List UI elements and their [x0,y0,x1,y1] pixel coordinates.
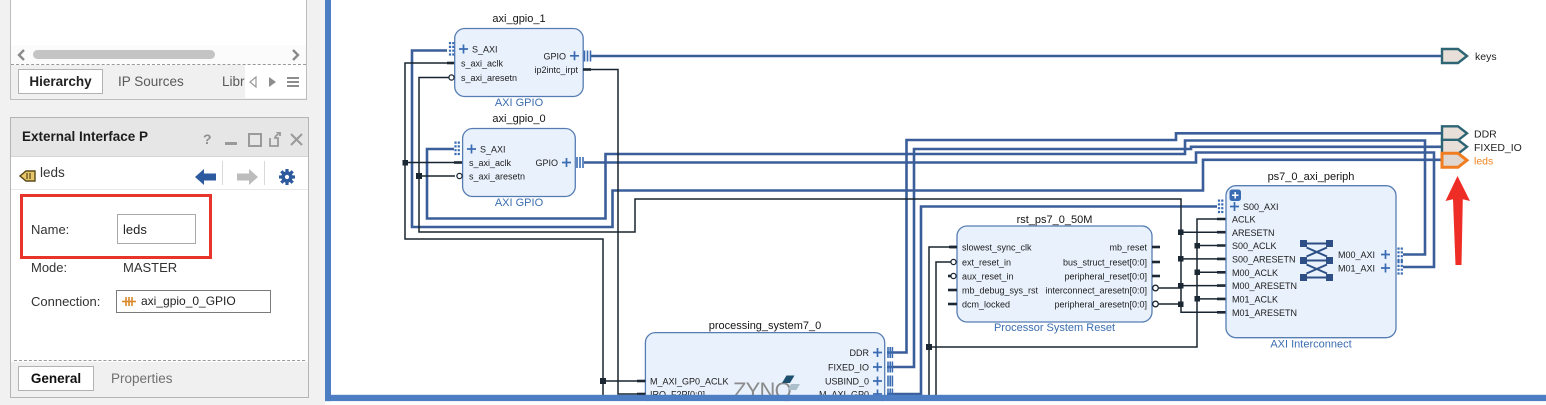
svg-text:Processor System Reset: Processor System Reset [994,322,1115,334]
pin S_AXI of axi_gpio_1 [450,42,453,57]
back arrow blue [195,169,217,185]
external port leds (selected, orange) [1442,153,1493,167]
svg-text:M00_AXI: M00_AXI [1338,250,1375,260]
scrollbar left chevron [16,49,28,61]
svg-text:peripheral_reset[0:0]: peripheral_reset[0:0] [1064,272,1147,282]
pin stub rst slowest_sync_clk [949,246,957,249]
wire: irq net gpio_1 ip2intc_irpt to PS7 IRQ_F2P [590,70,637,395]
svg-text:s_axi_aresetn: s_axi_aresetn [461,73,517,83]
external interface glyph [19,170,36,182]
svg-text:ACLK: ACLK [1232,215,1256,225]
svg-text:interconnect_aresetn[0:0]: interconnect_aresetn[0:0] [1045,286,1147,296]
pin S00_AXI [1219,200,1222,215]
svg-text:S00_ARESETN: S00_ARESETN [1232,254,1296,264]
svg-text:ip2intc_irpt: ip2intc_irpt [534,65,578,75]
svg-text:FIXED_IO: FIXED_IO [828,363,869,373]
pin aux_reset_in [948,275,951,278]
wire: clock stub to PS7 M_AXI_GP0_ACLK [603,380,637,382]
wire: interconnect M01_ACLK stub [1197,298,1217,300]
svg-text:S00_AXI: S00_AXI [1243,202,1279,212]
wire: PS7 DDR to DDR port [887,133,1441,352]
junction: aresetn at gpio_0 [416,173,422,179]
svg-text:bus_struct_reset[0:0]: bus_struct_reset[0:0] [1063,258,1147,268]
expand plus box [1230,190,1242,202]
float icon [269,132,284,147]
hollow left triangle [248,76,258,88]
top sources panel [10,0,307,100]
wire: aresetn net left tree [419,78,1217,313]
external port DDR [1442,126,1497,140]
External Interface Properties panel [10,117,309,398]
wire: gpio_1 GPIO to keys port [591,55,1441,58]
wire: clock branch to gpio_0 aclk [405,162,462,164]
wire: clock net left tree (gpio aclk pins, M_AXI_GP0_ACLK) [405,63,603,395]
wire: aresetn branch to gpio_0 aresetn [419,175,455,177]
scrollbar right chevron [289,49,301,61]
svg-text:leds: leds [1474,155,1493,167]
wire: PS7 M_AXI_GP0 to interconnect S00_AXI [887,207,1217,395]
junctions on aresetn riser [1178,230,1184,236]
help icon [203,131,212,147]
wire: rst interconnect_aresetn link [1157,287,1181,289]
hamburger [286,76,300,88]
svg-text:axi_gpio_1: axi_gpio_1 [492,13,545,25]
svg-text:M01_AXI: M01_AXI [1338,264,1375,274]
svg-text:M00_ACLK: M00_ACLK [1232,268,1278,278]
wire: interconnect M00_AXI to axi_gpio_0 S_AXI [427,141,1425,255]
wire: PS7 FIXED_IO to FIXED_IO port [887,147,1441,367]
svg-text:M01_ACLK: M01_ACLK [1232,294,1278,304]
svg-text:peripheral_aresetn[0:0]: peripheral_aresetn[0:0] [1054,300,1147,310]
red annotation arrow [1446,176,1471,265]
external port FIXED_IO [1442,140,1522,154]
wire: clock branch to interconnect clk pins [929,219,1217,347]
svg-text:M01_ARESETN: M01_ARESETN [1232,308,1297,318]
svg-text:ps7_0_axi_periph: ps7_0_axi_periph [1268,171,1355,183]
block axi_gpio_1 [449,13,591,109]
wire: interconnect S00_ARESETN stub [1181,258,1217,260]
svg-text:mb_debug_sys_rst: mb_debug_sys_rst [962,286,1039,296]
svg-text:axi_gpio_0: axi_gpio_0 [492,113,545,125]
svg-text:processing_system7_0: processing_system7_0 [709,320,822,332]
svg-text:DDR: DDR [850,348,870,358]
block ps7_0_axi_periph [1219,171,1402,351]
wire: axi_gpio_1 S_AXI to leds port [412,51,1441,228]
pin M_AXI_GP0_ACLK [637,380,645,383]
svg-text:AXI GPIO: AXI GPIO [495,197,544,209]
svg-text:S_AXI: S_AXI [480,145,506,155]
red highlight rectangle [20,194,212,259]
pin slowest_sync_clk [950,246,957,249]
svg-text:S00_ACLK: S00_ACLK [1232,241,1277,251]
gear icon [277,167,297,187]
wire: clock net right (FCLK to slowest_sync_clk) [929,247,951,395]
pin stubs interconnect left [1217,219,1226,312]
svg-text:M00_ARESETN: M00_ARESETN [1232,281,1297,291]
junction: clock at gpio_0 aclk [403,160,409,166]
wire: axi_gpio_0 GPIO to interconnect M01_AXI [584,153,1434,268]
svg-text:AXI Interconnect: AXI Interconnect [1270,339,1351,351]
svg-text:FIXED_IO: FIXED_IO [1474,142,1522,154]
wire: reset net FCLK_RESET0_N to ext_reset_in [936,262,951,395]
pin IRQ_F2P[0:0] [637,393,645,396]
svg-text:S_AXI: S_AXI [472,45,498,55]
wire: interconnect M00_ARESETN stub [1181,285,1217,287]
svg-text:rst_ps7_0_50M: rst_ps7_0_50M [1017,214,1093,226]
svg-text:s_axi_aresetn: s_axi_aresetn [469,172,525,182]
junctions on clock riser [1195,243,1201,249]
svg-text:GPIO: GPIO [535,158,558,168]
pin s_axi_aresetn of axi_gpio_0 [457,173,462,178]
svg-text:slowest_sync_clk: slowest_sync_clk [962,243,1032,253]
name row [31,222,69,237]
block processing_system7_0 [637,320,892,405]
close icon [290,133,303,146]
canvas frame bottom bar [325,395,1546,401]
pin ext_reset_in [951,259,956,264]
svg-text:ext_reset_in: ext_reset_in [962,258,1011,268]
svg-text:s_axi_aclk: s_axi_aclk [461,59,504,69]
pin stub gpio_0 aclk [454,161,463,164]
maximize icon [248,133,262,147]
scrollbar thumb [33,50,215,59]
pin s_axi_aresetn of axi_gpio_1 [449,75,454,80]
filled right triangle [267,76,277,88]
svg-text:AXI GPIO: AXI GPIO [495,97,544,109]
svg-text:aux_reset_in: aux_reset_in [962,272,1014,282]
pin dcm_locked [948,303,957,306]
svg-text:dcm_locked: dcm_locked [962,300,1010,310]
wire: interconnect S00_ACLK stub [1197,245,1217,247]
block axi_gpio_0 [456,113,584,209]
svg-text:DDR: DDR [1474,128,1497,140]
crossbar icon [1300,240,1333,281]
pin mb_debug_sys_rst [948,289,957,292]
svg-text:mb_reset: mb_reset [1109,243,1147,253]
canvas frame left bar [325,0,332,401]
external port keys [1442,49,1497,63]
svg-text:s_axi_aclk: s_axi_aclk [469,158,512,168]
block rst_ps7_0_50M [948,214,1160,334]
strip below frame [331,401,1546,405]
svg-text:USBIND_0: USBIND_0 [825,377,869,387]
junction: clock right riser [926,344,932,350]
svg-text:GPIO: GPIO [543,52,566,62]
junction: clock at M_AXI_GP0_ACLK [600,378,606,384]
fwd arrow gray [236,169,258,185]
svg-text:keys: keys [1475,51,1497,63]
wire: interconnect M00_ACLK stub [1197,271,1217,273]
wire: rst peripheral_aresetn link [1157,303,1181,305]
connection row [31,294,100,309]
wire: interconnect ARESETN stub [1181,231,1217,233]
pin stub gpio_1 aclk [447,62,455,65]
pin S_AXI of axi_gpio_0 [456,142,459,157]
svg-text:M_AXI_GP0_ACLK: M_AXI_GP0_ACLK [650,377,729,387]
minimize icon [225,142,237,145]
svg-text:ARESETN: ARESETN [1232,228,1275,238]
